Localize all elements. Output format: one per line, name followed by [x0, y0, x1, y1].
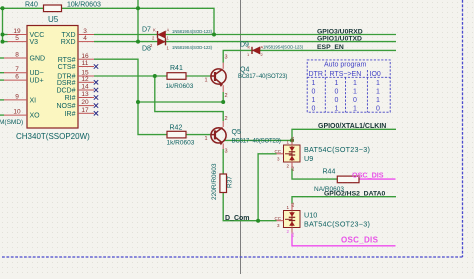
svg-text:D_Com: D_Com — [225, 215, 250, 222]
svg-text:DSR#: DSR# — [57, 80, 76, 87]
svg-text:0: 0 — [335, 88, 339, 95]
wire VCC top rail — [0, 8, 214, 41]
svg-text:2: 2 — [225, 116, 228, 122]
svg-text:0: 0 — [376, 105, 380, 112]
IC U5 CH340T body — [27, 26, 78, 129]
Auto program table — [307, 60, 390, 112]
svg-text:CC: CC — [275, 149, 282, 154]
svg-text:1k/R0603: 1k/R0603 — [167, 140, 195, 147]
wire UD- stub — [0, 72, 4, 74]
svg-text:14: 14 — [81, 84, 89, 91]
resistor R41 — [167, 73, 186, 80]
svg-text:8: 8 — [15, 52, 19, 59]
svg-text:BAT54C(SOT23−3): BAT54C(SOT23−3) — [304, 145, 370, 154]
transistor Q5 — [211, 121, 227, 149]
svg-text:GPIO0/XTAL1/CLKIN: GPIO0/XTAL1/CLKIN — [318, 123, 386, 130]
svg-text:XI: XI — [30, 97, 37, 104]
svg-text:1: 1 — [312, 97, 316, 104]
svg-text:D7: D7 — [142, 26, 151, 33]
svg-text:1: 1 — [205, 78, 208, 84]
wire RTS# — [94, 59, 167, 134]
svg-text:7: 7 — [15, 66, 19, 73]
svg-text:20: 20 — [81, 99, 89, 106]
no-connect x marks — [94, 64, 98, 115]
svg-text:220R/R0603: 220R/R0603 — [211, 163, 218, 200]
svg-text:OSC_DIS: OSC_DIS — [341, 235, 379, 244]
svg-text:A: A — [167, 28, 170, 33]
svg-text:U5: U5 — [48, 15, 59, 24]
svg-text:9: 9 — [15, 93, 19, 100]
wire U10 A2 OSC_DIS magenta — [292, 234, 396, 246]
svg-text:DCD#: DCD# — [56, 88, 75, 95]
page divider line — [240, 0, 242, 274]
svg-text:RXD: RXD — [61, 39, 76, 46]
U5 right pin names — [56, 32, 75, 118]
svg-text:GPIO2/HS2_DATA0: GPIO2/HS2_DATA0 — [324, 191, 386, 198]
junction U9 pin1 node — [290, 138, 294, 142]
svg-text:V3: V3 — [30, 39, 39, 46]
svg-text:BC817−40(SOT23): BC817−40(SOT23) — [238, 74, 287, 80]
wire GPIO0 — [292, 129, 396, 138]
svg-text:1: 1 — [335, 105, 339, 112]
U5 left pin numbers — [13, 28, 21, 116]
svg-text:1: 1 — [312, 80, 316, 87]
sheet boundary dashed blue horizontal — [2, 256, 463, 258]
wire Q4 emitter to RTS net — [138, 92, 223, 102]
wire XI stub — [0, 99, 4, 101]
svg-text:1N5819S4(SOD-123): 1N5819S4(SOD-123) — [263, 44, 304, 49]
U5 left pin names — [30, 32, 46, 120]
diode D9 — [240, 42, 304, 58]
svg-text:6: 6 — [15, 74, 19, 81]
svg-text:0: 0 — [353, 97, 357, 104]
svg-text:13: 13 — [81, 91, 89, 98]
svg-text:CH340T(SSOP20W): CH340T(SSOP20W) — [16, 132, 90, 141]
resistor R44 — [337, 176, 359, 183]
svg-text:3: 3 — [225, 55, 228, 61]
svg-text:ESP_EN: ESP_EN — [317, 44, 344, 51]
svg-text:R44: R44 — [323, 169, 336, 176]
wire Q5 emitter chain — [222, 149, 224, 174]
svg-text:U9: U9 — [304, 154, 313, 163]
svg-text:K: K — [248, 45, 251, 50]
svg-text:19: 19 — [13, 28, 21, 35]
svg-text:GPIO1/U0TXD: GPIO1/U0TXD — [317, 35, 362, 42]
svg-text:OSC_DIS: OSC_DIS — [352, 170, 384, 179]
junction on RXD wire — [136, 40, 140, 44]
U5 right pin stubs — [78, 35, 94, 114]
svg-text:1: 1 — [353, 80, 357, 87]
wire R41 to Q4 base — [186, 75, 211, 77]
svg-text:GPIO3/U0RXD: GPIO3/U0RXD — [317, 28, 363, 35]
junction V3 pin row — [1, 40, 5, 44]
svg-text:TXD: TXD — [62, 32, 76, 39]
svg-text:A1: A1 — [290, 201, 295, 207]
svg-text:3: 3 — [83, 28, 87, 35]
svg-text:BAT54C(SOT23−3): BAT54C(SOT23−3) — [304, 220, 370, 229]
svg-text:R41: R41 — [170, 65, 183, 72]
svg-text:K: K — [153, 28, 156, 33]
svg-text:CTS#: CTS# — [58, 64, 76, 71]
junction R40 left vertical — [136, 6, 140, 10]
svg-text:1: 1 — [205, 136, 208, 142]
svg-text:17: 17 — [81, 107, 89, 114]
svg-text:A1: A1 — [290, 136, 295, 142]
svg-text:5: 5 — [15, 35, 19, 42]
diode D7 — [142, 26, 213, 40]
wire UD+ stub — [0, 79, 4, 81]
svg-text:0: 0 — [312, 88, 316, 95]
svg-text:Auto program: Auto program — [324, 61, 367, 68]
wire U9 CC pin — [258, 154, 276, 221]
svg-text:UD−: UD− — [30, 70, 44, 77]
svg-text:RI#: RI# — [65, 95, 76, 102]
svg-text:VCC: VCC — [30, 32, 45, 39]
wire DTR branch down — [155, 76, 223, 121]
svg-text:Q5: Q5 — [232, 129, 241, 136]
resistor R40 — [44, 5, 62, 12]
svg-text:UD+: UD+ — [30, 78, 44, 85]
svg-text:0: 0 — [312, 105, 316, 112]
svg-text:R42: R42 — [170, 125, 183, 132]
resistor R42 — [167, 131, 186, 138]
svg-text:R37: R37 — [227, 176, 234, 188]
svg-text:U10: U10 — [304, 211, 317, 220]
wire R42 to Q5 base — [186, 134, 211, 136]
svg-text:4: 4 — [83, 35, 87, 42]
svg-text:RTS−>EN: RTS−>EN — [330, 71, 362, 78]
svg-text:3: 3 — [225, 149, 228, 155]
wire vertical to RXD — [137, 0, 139, 42]
svg-text:1k/R0603: 1k/R0603 — [166, 83, 194, 90]
wire RXD / GPIO1 — [94, 41, 396, 43]
svg-text:11: 11 — [82, 60, 89, 67]
wire OSC_DIS magenta — [359, 178, 396, 180]
svg-text:10: 10 — [13, 109, 21, 116]
transistor Q4 — [211, 63, 227, 93]
svg-text:IR#: IR# — [65, 111, 76, 118]
svg-text:1N5819S4(SOD-123): 1N5819S4(SOD-123) — [172, 45, 213, 50]
wire TXD / GPIO3 — [94, 34, 396, 36]
svg-text:2: 2 — [225, 93, 228, 99]
svg-text:A2: A2 — [290, 165, 295, 171]
wire DTR# — [94, 75, 167, 77]
svg-text:Q4: Q4 — [240, 67, 249, 74]
svg-text:0: 0 — [335, 97, 339, 104]
svg-text:1: 1 — [353, 105, 357, 112]
BAT54C U10 — [275, 201, 371, 237]
svg-text:NOS#: NOS# — [56, 103, 75, 110]
svg-text:1: 1 — [335, 80, 339, 87]
svg-text:1: 1 — [376, 80, 380, 87]
svg-text:1: 1 — [376, 88, 380, 95]
svg-text:XO: XO — [30, 113, 41, 120]
svg-text:1: 1 — [376, 97, 380, 104]
svg-text:BC817−40(SOT23): BC817−40(SOT23) — [232, 139, 281, 145]
svg-text:R40: R40 — [25, 2, 38, 9]
wire ESP_EN — [223, 50, 396, 62]
junction VCC pin row — [1, 33, 5, 37]
wire XO stub — [0, 114, 4, 116]
svg-text:10k/R0603: 10k/R0603 — [67, 2, 101, 9]
BAT54C U9 — [275, 136, 371, 171]
wire GPIO2 — [292, 197, 396, 204]
svg-text:1: 1 — [353, 88, 357, 95]
svg-text:GND: GND — [30, 56, 46, 63]
sheet boundary dashed blue vertical — [462, 0, 464, 257]
svg-text:1N5819S4(SOD-123): 1N5819S4(SOD-123) — [172, 29, 213, 34]
svg-text:DTR: DTR — [309, 71, 323, 78]
svg-text:RTS#: RTS# — [58, 57, 76, 64]
U5 left pin stubs — [4, 35, 27, 116]
wire Q5 emitter to U9 pin1 — [224, 139, 292, 141]
junction R40 right on TXD wire — [212, 33, 216, 37]
svg-text:M(SMD): M(SMD) — [0, 119, 23, 126]
junction Q4 emitter wire1 — [221, 100, 225, 104]
svg-text:12: 12 — [81, 76, 89, 83]
resistor R37 vertical — [220, 174, 227, 193]
junction D_Com wire — [256, 219, 260, 223]
svg-text:16: 16 — [81, 53, 89, 60]
U5 right pin numbers — [81, 28, 89, 114]
junction on VCC rail at top wire — [1, 6, 5, 10]
junction RTS net wire1 — [136, 100, 140, 104]
junction DTR branch — [153, 74, 157, 78]
svg-text:A2: A2 — [290, 231, 295, 237]
wire U9 A2 to R44 — [292, 169, 337, 180]
diode D8 — [142, 38, 213, 52]
svg-text:IO0: IO0 — [370, 71, 381, 78]
wire GND stub — [0, 57, 4, 59]
svg-text:CC: CC — [275, 216, 282, 221]
